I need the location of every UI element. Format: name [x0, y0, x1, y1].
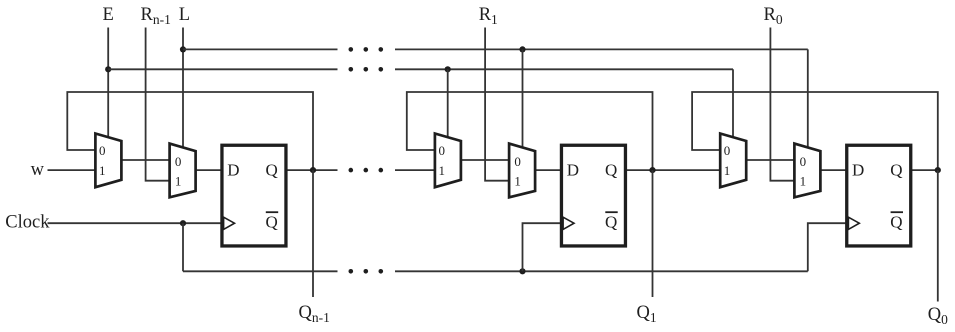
svg-text:1: 1 — [438, 163, 445, 178]
wire E drop to U3 select — [447, 69, 449, 138]
wire U5 output to U6 input 0 — [745, 159, 795, 161]
node Q_n-1 junction — [310, 167, 316, 173]
svg-text:1: 1 — [175, 174, 182, 189]
svg-text:Clock: Clock — [5, 212, 50, 232]
svg-text:R1: R1 — [479, 5, 498, 27]
wire clock distribution segment 2 — [395, 270, 808, 272]
svg-text:Q0: Q0 — [928, 305, 948, 327]
wire Q_n-1 down to output — [312, 170, 314, 297]
ellipsis on E distribution — [349, 67, 354, 72]
wire feedback loop stage n-1 — [67, 92, 313, 170]
wire Q_n-1 output — [287, 169, 338, 171]
mux U3 — [435, 134, 461, 188]
wire clock distribution segment 1 — [183, 270, 338, 272]
svg-text:D: D — [567, 161, 579, 180]
wire R_n-1 drop — [146, 28, 172, 181]
wire clock riser stage 0 — [808, 223, 847, 271]
svg-text:Q: Q — [890, 161, 902, 180]
flip-flop FF1 — [222, 145, 286, 246]
wire w to U1 input 1 — [48, 169, 97, 171]
wire L distribution segment 2 — [395, 48, 808, 50]
svg-text:Qn-1: Qn-1 — [299, 303, 330, 325]
wire feedback loop stage 0 — [692, 92, 938, 170]
svg-text:Q1: Q1 — [637, 303, 657, 325]
node L branch — [180, 46, 186, 52]
wire U4 output to FF2 D input — [534, 169, 562, 171]
svg-text:Rn-1: Rn-1 — [141, 5, 171, 27]
FF3 Qbar overline — [891, 211, 903, 213]
FF2 clock triangle — [563, 217, 574, 229]
wire Q_0 down to output — [937, 170, 939, 301]
flip-flop FF2 — [561, 145, 625, 246]
node clock branch stage 1 — [519, 268, 525, 274]
mux U4 — [509, 144, 535, 198]
svg-text:0: 0 — [514, 154, 521, 169]
svg-text:Q: Q — [890, 212, 902, 231]
wire U3 output to U4 input 0 — [460, 159, 510, 161]
wire Clock to FF1 clock input — [48, 222, 223, 224]
wire U6 output to FF3 D input — [819, 169, 847, 171]
svg-text:1: 1 — [800, 174, 807, 189]
svg-text:D: D — [227, 161, 239, 180]
wire Q_1 output to stage 0 mux — [626, 169, 721, 171]
node Q_1 junction — [649, 167, 655, 173]
svg-text:0: 0 — [438, 143, 445, 158]
svg-text:D: D — [852, 161, 864, 180]
wire clock riser stage 1 — [523, 223, 562, 271]
wire Q_0 output — [911, 169, 937, 171]
FF2 Qbar overline — [605, 211, 617, 213]
svg-text:Q: Q — [266, 161, 278, 180]
svg-text:R0: R0 — [764, 5, 783, 27]
ellipsis on L distribution — [349, 47, 354, 52]
wire E distribution segment 2 — [395, 68, 733, 70]
svg-text:Q: Q — [266, 212, 278, 231]
wire U2 output to FF1 D input — [195, 169, 223, 171]
mux U6 — [794, 144, 820, 198]
svg-text:L: L — [179, 5, 190, 25]
wire L distribution segment 1 — [183, 48, 338, 50]
wire R0 drop — [770, 28, 796, 181]
svg-text:Q: Q — [605, 161, 617, 180]
wire Clock branch down — [182, 223, 184, 271]
wire E drop to U1 select — [107, 28, 109, 139]
mux U1 — [95, 134, 121, 188]
wire L drop to U6 select — [807, 49, 809, 148]
svg-text:1: 1 — [724, 163, 731, 178]
svg-text:0: 0 — [724, 143, 731, 158]
FF1 clock triangle — [224, 217, 235, 229]
svg-text:w: w — [31, 160, 45, 180]
flip-flop FF3 — [847, 145, 911, 246]
node Clock branch stage n-1 — [180, 220, 186, 226]
FF1 Qbar overline — [266, 211, 278, 213]
ellipsis on shift line — [349, 168, 354, 173]
svg-text:E: E — [103, 5, 114, 25]
wire shift line into stage 1 mux — [395, 169, 436, 171]
svg-text:0: 0 — [800, 154, 807, 169]
wire E distribution segment 1 — [108, 68, 337, 70]
node L branch stage 1 column — [519, 46, 525, 52]
svg-text:0: 0 — [175, 154, 182, 169]
node E branch stage 1 column — [445, 66, 451, 72]
mux U2 — [170, 144, 196, 198]
wire Q_1 down to output — [652, 170, 654, 297]
mux U5 — [720, 134, 746, 188]
wire L drop to U2 select — [182, 28, 184, 149]
wire feedback loop stage 1 — [407, 92, 653, 170]
ellipsis on clock distribution — [349, 269, 354, 274]
wire L drop to U4 select — [522, 49, 524, 148]
wire R1 drop — [485, 28, 511, 181]
FF3 clock triangle — [848, 217, 859, 229]
svg-text:Q: Q — [605, 212, 617, 231]
svg-text:1: 1 — [99, 163, 106, 178]
wire U1 output to U2 input 0 — [120, 159, 170, 161]
node Q_0 junction — [935, 167, 941, 173]
node E branch — [105, 66, 111, 72]
svg-text:1: 1 — [514, 174, 521, 189]
wire E drop to U5 select — [732, 69, 734, 138]
svg-text:0: 0 — [99, 143, 106, 158]
